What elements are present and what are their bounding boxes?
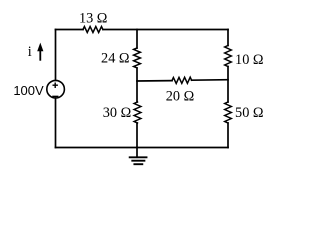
wire bottom xyxy=(56,147,229,149)
wire middle horizontal left segment xyxy=(137,80,172,82)
wire left branch lower (source to corner) xyxy=(55,98,57,148)
current arrow i head xyxy=(37,43,43,52)
wire right branch mid xyxy=(227,67,229,103)
voltage source V1 circle xyxy=(47,80,65,98)
resistor R3 20ohm zigzag xyxy=(172,77,192,83)
ground bar 2 xyxy=(132,160,144,162)
ground bar 1 xyxy=(130,156,147,158)
wire top-right segment xyxy=(103,29,228,31)
wire middle branch top xyxy=(136,30,138,49)
svg-text:i: i xyxy=(28,44,32,60)
current arrow i shaft xyxy=(39,50,41,60)
svg-text:100V: 100V xyxy=(13,83,44,98)
svg-text:30 Ω: 30 Ω xyxy=(103,105,132,121)
wire left branch upper (corner to source) xyxy=(55,30,57,81)
wire right branch bottom xyxy=(227,123,229,148)
wire middle horizontal right segment xyxy=(192,79,228,82)
ground bar 3 xyxy=(134,163,142,165)
wire right branch top xyxy=(227,30,229,46)
resistor R2 24ohm zigzag xyxy=(134,48,141,68)
svg-text:13 Ω: 13 Ω xyxy=(79,10,108,26)
resistor R4 30ohm zigzag xyxy=(134,102,141,123)
svg-text:50 Ω: 50 Ω xyxy=(235,105,264,121)
wire top-left segment xyxy=(56,29,84,31)
svg-text:10 Ω: 10 Ω xyxy=(235,52,264,68)
voltage source plus sign xyxy=(53,83,57,87)
svg-text:24 Ω: 24 Ω xyxy=(101,50,130,66)
resistor R5 10ohm zigzag xyxy=(225,46,232,67)
wire middle branch bottom xyxy=(136,123,138,148)
ground stub wire xyxy=(136,148,138,158)
voltage source minus sign xyxy=(53,95,58,97)
svg-text:20 Ω: 20 Ω xyxy=(166,88,195,104)
wire middle branch mid xyxy=(136,68,138,102)
resistor R6 50ohm zigzag xyxy=(225,102,232,123)
resistor R1 13ohm zigzag xyxy=(83,27,103,33)
